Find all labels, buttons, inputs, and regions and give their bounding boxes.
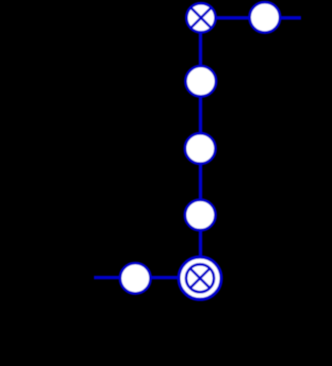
node N1 (top right) [250, 2, 280, 32]
node N2 [186, 66, 216, 96]
lamp X2 (crossed circle with outer ring, bottom) [179, 257, 221, 299]
wire: main vertical run [199, 18, 202, 278]
wire: bottom horizontal branch [94, 276, 200, 279]
node N5 (bottom left) [120, 263, 150, 293]
node N4 [185, 200, 215, 230]
lamp X1 (crossed circle, top) [187, 3, 216, 32]
wire: top horizontal branch [201, 16, 301, 20]
node N3 [185, 133, 215, 163]
